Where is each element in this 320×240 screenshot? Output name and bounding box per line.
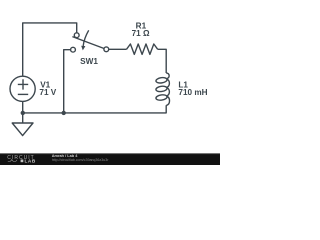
ground — [12, 113, 33, 136]
node junction — [21, 111, 25, 115]
svg-text:LAB: LAB — [25, 159, 36, 164]
svg-text:71 V: 71 V — [39, 88, 56, 97]
resistor R1 — [127, 44, 158, 54]
footer bar — [0, 153, 220, 165]
svg-text:710 mH: 710 mH — [178, 88, 207, 97]
switch SW1 — [71, 30, 109, 52]
wire — [23, 23, 77, 76]
wire — [64, 50, 71, 112]
CircuitLab logo — [7, 155, 36, 164]
wire — [158, 49, 167, 73]
svg-text:71 Ω: 71 Ω — [132, 29, 150, 38]
svg-text:SW1: SW1 — [80, 57, 98, 66]
node junction — [62, 111, 66, 115]
wire — [22, 101, 24, 113]
svg-text:http://circuitlab.com/c39anq36: http://circuitlab.com/c39anq36z3u3r — [52, 158, 110, 162]
voltage source V1 — [10, 76, 35, 101]
wire — [109, 48, 127, 50]
inductor L1 — [156, 73, 170, 106]
wire — [23, 105, 167, 113]
